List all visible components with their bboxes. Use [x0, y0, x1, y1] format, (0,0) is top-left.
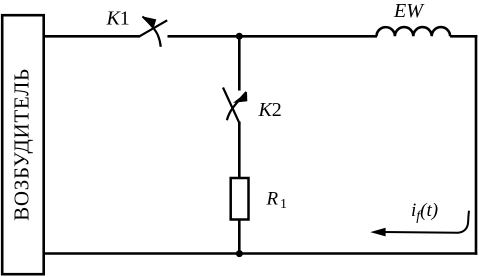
resistor R1	[231, 178, 249, 220]
svg-text:if(t): if(t)	[411, 200, 438, 224]
node A junction dot	[236, 33, 243, 40]
svg-text:1: 1	[280, 197, 287, 212]
wire top-middle	[168, 35, 378, 38]
svg-text:EW: EW	[393, 0, 425, 22]
wire right vertical	[475, 35, 478, 255]
wire top-right	[450, 35, 477, 38]
switch K2	[223, 88, 247, 125]
wire branch middle	[238, 122, 241, 179]
svg-text:R: R	[266, 188, 279, 209]
switch K1	[140, 16, 168, 47]
svg-text:К2: К2	[258, 99, 282, 121]
svg-text:ВОЗБУДИТЕЛЬ: ВОЗБУДИТЕЛЬ	[10, 68, 34, 221]
inductor EW	[377, 27, 451, 36]
current arrow if(t)	[370, 211, 469, 237]
exciter box	[2, 15, 44, 274]
wire branch lower	[238, 220, 241, 255]
wire bottom	[43, 252, 477, 255]
node B junction dot	[236, 250, 243, 257]
wire branch upper	[238, 36, 241, 90]
svg-text:К1: К1	[106, 8, 130, 30]
wire top-left	[43, 35, 140, 38]
